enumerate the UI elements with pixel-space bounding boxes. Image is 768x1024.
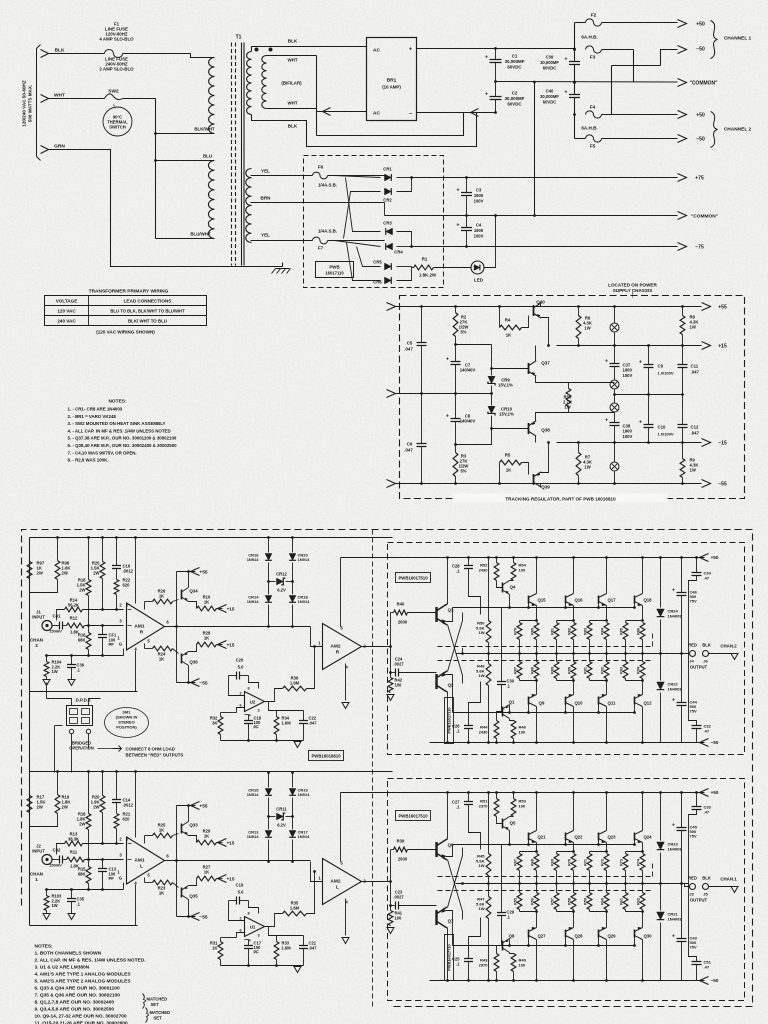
svg-text:+: + xyxy=(565,90,568,96)
svg-text:1N914: 1N914 xyxy=(247,834,260,839)
svg-text:RED: RED xyxy=(688,643,697,648)
wire R18 top xyxy=(88,538,90,580)
wire R10 top xyxy=(568,383,570,389)
wire SM1 left down xyxy=(54,726,56,773)
svg-text:R74: R74 xyxy=(637,858,641,866)
transistor Q35 xyxy=(182,886,189,900)
diode CR21 xyxy=(657,912,665,920)
svg-text:Q10: Q10 xyxy=(574,701,583,706)
svg-text:1N4003: 1N4003 xyxy=(668,613,683,618)
resistor R83 xyxy=(587,623,592,640)
svg-text:6: 6 xyxy=(239,929,241,933)
resistor R25 xyxy=(153,833,173,838)
thermal switch callout circle xyxy=(103,107,132,136)
wire R46 bottom xyxy=(513,972,515,981)
resistor R104 xyxy=(44,662,49,677)
transistor Q27 xyxy=(528,930,530,938)
svg-text:.047: .047 xyxy=(691,431,700,436)
capacitor C44 xyxy=(677,703,687,706)
svg-text:100: 100 xyxy=(519,729,526,734)
wire Q23 base xyxy=(598,841,600,845)
wire SW2 to tap xyxy=(155,99,157,134)
capacitor C36 xyxy=(67,665,76,668)
svg-text:15V,1%: 15V,1% xyxy=(498,383,513,388)
capacitor C25 xyxy=(464,959,473,962)
wire C24 to driver2 base xyxy=(399,672,437,674)
lamp DS4 xyxy=(610,462,619,471)
wire R36 to AM2 node xyxy=(307,647,315,689)
svg-text:+: + xyxy=(457,223,460,229)
ground arrow AM2 xyxy=(342,703,349,709)
fuse F6 xyxy=(313,172,328,179)
svg-text:+: + xyxy=(565,57,568,63)
wire Q39 collector xyxy=(541,443,549,473)
svg-text:Q4: Q4 xyxy=(510,585,516,590)
terminal -75 xyxy=(678,243,687,251)
svg-text:+50: +50 xyxy=(696,22,705,28)
wire Q38 base row xyxy=(492,428,529,430)
wire to pin 2 xyxy=(83,843,124,845)
wire Q40 emitter to Q37 xyxy=(541,318,549,346)
wire R54 top xyxy=(513,793,515,799)
diode CR24 xyxy=(657,609,665,617)
svg-text:CR2: CR2 xyxy=(383,198,392,203)
svg-text:+: + xyxy=(672,823,675,829)
svg-text:R90: R90 xyxy=(568,667,572,674)
svg-text:BLU/WHT: BLU/WHT xyxy=(190,232,211,237)
capacitor C21 xyxy=(303,936,305,946)
svg-text:R81: R81 xyxy=(551,628,555,635)
svg-text:2W: 2W xyxy=(79,822,85,827)
svg-text:+75: +75 xyxy=(695,176,704,182)
wire bias top xyxy=(497,581,503,588)
svg-text:15V,1%: 15V,1% xyxy=(499,412,514,417)
svg-text:1.6M: 1.6M xyxy=(290,681,300,686)
svg-text:620: 620 xyxy=(123,583,131,588)
svg-text:6: 6 xyxy=(239,704,241,708)
svg-text:C11: C11 xyxy=(691,364,699,369)
transistor Q4 xyxy=(503,581,510,595)
svg-text:R4: R4 xyxy=(505,318,511,323)
svg-text:BLK: BLK xyxy=(55,48,65,54)
wire CR6 out xyxy=(397,267,412,281)
wire to F5 xyxy=(575,138,586,140)
wire -50 rail xyxy=(430,980,705,982)
input jack J2 xyxy=(42,855,52,865)
resistor R10 xyxy=(566,389,571,407)
svg-text:Q30: Q30 xyxy=(643,934,652,939)
transistor Q21 xyxy=(528,833,530,841)
lamp DS3 xyxy=(610,403,619,412)
transistor Q10 xyxy=(565,697,567,705)
wire F1 to T1 xyxy=(123,53,191,55)
svg-text:+50: +50 xyxy=(696,113,705,119)
svg-text:BRN: BRN xyxy=(261,196,272,201)
svg-text:1900: 1900 xyxy=(474,193,484,198)
capacitor C11 xyxy=(678,365,688,368)
svg-text:NOTES:: NOTES: xyxy=(108,399,127,405)
wire input column xyxy=(390,850,392,906)
resistor R94 xyxy=(640,662,645,679)
label tracking regulator xyxy=(453,494,668,503)
svg-text:1W: 1W xyxy=(479,906,485,911)
resistor R50 xyxy=(486,621,491,643)
svg-text:38.3K: 38.3K xyxy=(68,837,79,842)
wire bottom frame xyxy=(30,691,138,693)
svg-text:(120 VAC WIRING SHOWN): (120 VAC WIRING SHOWN) xyxy=(96,330,155,335)
wire driver collector up xyxy=(447,793,449,840)
svg-text:1.0/100V: 1.0/100V xyxy=(658,371,674,376)
capacitor C1 xyxy=(495,49,497,60)
capacitor C34 xyxy=(692,573,702,576)
svg-text:.0027: .0027 xyxy=(393,662,404,667)
dashed frame channel1 output module xyxy=(388,779,745,1001)
wire R14 left xyxy=(57,610,65,621)
wire Q38 collector to -15 xyxy=(535,436,537,443)
wire diode col right top xyxy=(292,773,294,788)
svg-text:+: + xyxy=(672,698,675,704)
wire BR1- rail xyxy=(417,112,496,114)
wire SM1 top A xyxy=(47,699,72,706)
wire R98 top xyxy=(57,538,59,561)
svg-text:100: 100 xyxy=(519,567,526,572)
svg-text:SET: SET xyxy=(151,1002,160,1007)
svg-text:CR5: CR5 xyxy=(373,260,382,265)
wire crossover 2 xyxy=(661,50,678,66)
wire Q17 base xyxy=(598,604,600,608)
svg-text:4. AM1'S ARE TYPE 1 ANALOG MOD: 4. AM1'S ARE TYPE 1 ANALOG MODULES xyxy=(35,972,132,978)
svg-text:Q15: Q15 xyxy=(537,598,546,603)
wire R22 bottom xyxy=(116,829,118,844)
svg-text:−55: −55 xyxy=(199,915,207,921)
resistor R42 xyxy=(388,678,393,693)
resistor R13 xyxy=(65,841,83,846)
wire AM2 output right xyxy=(361,881,385,883)
svg-text:+: + xyxy=(605,359,608,365)
resistor R88 xyxy=(534,662,539,679)
dashed frame channel2 output module xyxy=(388,543,745,755)
svg-text:120/240 VAC 50-60HZ: 120/240 VAC 50-60HZ xyxy=(22,80,27,127)
wire -50 rail xyxy=(430,742,705,744)
terminal +50 ch2 xyxy=(678,111,687,119)
resistor R82 xyxy=(571,623,576,640)
capacitor CF1 xyxy=(98,635,107,638)
wire base bus bottom xyxy=(453,712,635,714)
wire C16 top xyxy=(116,772,118,800)
svg-text:1.6M: 1.6M xyxy=(290,906,300,911)
svg-text:Q37: Q37 xyxy=(541,361,550,366)
svg-text:SWITCH: SWITCH xyxy=(109,125,126,130)
ground arrow c36 xyxy=(68,680,75,686)
diode CR17 xyxy=(289,831,296,838)
svg-text:2970: 2970 xyxy=(479,962,489,967)
wire Q24 emitter xyxy=(642,843,644,852)
terminal -55 xyxy=(702,480,711,488)
svg-text:30,000MF: 30,000MF xyxy=(505,96,525,101)
svg-text:C41: C41 xyxy=(53,614,61,619)
label box PWB16017510 xyxy=(396,573,431,583)
svg-text:R1: R1 xyxy=(422,257,428,262)
svg-text:R: R xyxy=(140,630,144,636)
svg-text:+50: +50 xyxy=(711,790,719,795)
resistor R91 xyxy=(587,662,592,679)
svg-text:R91: R91 xyxy=(584,667,588,674)
resistor R48 xyxy=(486,664,491,686)
svg-text:+15: +15 xyxy=(227,841,235,846)
wire +55 stub xyxy=(177,571,196,573)
wire U2 pin6 down xyxy=(237,708,245,713)
svg-text:30,000MF: 30,000MF xyxy=(540,94,559,99)
transistor Q11 xyxy=(598,697,600,705)
svg-text:(BIFILAR): (BIFILAR) xyxy=(281,81,302,86)
terminal +50 out xyxy=(700,554,709,562)
svg-text:T1: T1 xyxy=(236,35,242,41)
svg-text:−: − xyxy=(409,112,412,118)
wire top rail xyxy=(30,537,393,539)
wire Q22 base xyxy=(565,841,567,845)
resistor R61 xyxy=(623,893,628,910)
svg-text:F6: F6 xyxy=(318,165,324,170)
svg-text:−50: −50 xyxy=(696,47,705,53)
wire center tap to common xyxy=(384,203,386,216)
wire row Q38 emitter bus xyxy=(536,412,615,414)
terminal +75 xyxy=(678,174,687,182)
wire to BLU tap xyxy=(156,160,215,162)
capacitor C16 xyxy=(112,566,121,569)
resistor R11 xyxy=(67,857,85,862)
svg-text:120 VAC: 120 VAC xyxy=(57,309,76,314)
input terminal bracket xyxy=(37,45,41,161)
resistor R3 xyxy=(453,453,458,477)
wire crossover 3 xyxy=(611,66,613,115)
svg-text:−75: −75 xyxy=(695,245,704,251)
svg-text:1K: 1K xyxy=(204,636,209,641)
svg-text:2: 2 xyxy=(239,692,241,696)
transistor Q1 xyxy=(503,705,510,719)
wire drivers cross coupling xyxy=(448,625,463,684)
wire secondary BLK top to BR1 xyxy=(252,47,367,52)
resistor R84 xyxy=(604,623,609,640)
svg-text:F4: F4 xyxy=(590,105,596,111)
resistor R79 xyxy=(517,623,522,640)
wire GRN to chassis ground xyxy=(49,150,283,267)
svg-text:OPERATION: OPERATION xyxy=(69,746,94,751)
wire Q24 base xyxy=(634,841,636,845)
wire AM1 output xyxy=(165,626,311,628)
svg-text:F7: F7 xyxy=(318,246,324,251)
wire R14 left xyxy=(57,844,65,855)
svg-text:Q18: Q18 xyxy=(643,598,652,603)
zener CR11 xyxy=(277,813,286,820)
fuse F3 xyxy=(586,46,602,53)
resistor R4 xyxy=(499,307,501,323)
svg-text:Q11: Q11 xyxy=(608,701,616,706)
svg-text:G: G xyxy=(119,642,122,647)
svg-text:R82: R82 xyxy=(568,628,572,635)
wire C46 top xyxy=(681,793,683,828)
svg-text:R93: R93 xyxy=(620,667,624,674)
wire bifilar to BR1 AC xyxy=(317,111,367,113)
resistor R6 xyxy=(576,316,581,339)
polarity dot A xyxy=(255,48,259,52)
wire lamp column top xyxy=(614,307,616,323)
transistor Q37 xyxy=(529,361,537,376)
svg-text:BLK: BLK xyxy=(288,124,298,129)
wire input column xyxy=(390,613,392,673)
capacitor C13 xyxy=(98,869,107,872)
resistor R32 xyxy=(218,717,223,735)
capacitor C38 xyxy=(610,423,620,426)
svg-text:R71: R71 xyxy=(584,859,588,866)
resistor R5 xyxy=(499,468,501,484)
svg-text:Q35: Q35 xyxy=(189,894,198,899)
svg-text:6A.H.B.: 6A.H.B. xyxy=(581,126,597,131)
svg-text:L: L xyxy=(140,864,143,870)
svg-text:CHAN.1: CHAN.1 xyxy=(720,877,737,882)
wire AM1 output xyxy=(165,860,311,862)
wire C13 top xyxy=(102,860,104,869)
wire driver2 emitter to bus xyxy=(446,675,453,713)
wire bottom frame xyxy=(30,925,138,927)
op-amp AM1 L xyxy=(127,837,165,884)
resistor R55 xyxy=(517,893,522,910)
svg-text:C20: C20 xyxy=(236,658,244,663)
svg-text:R39: R39 xyxy=(397,839,405,844)
resistor R18 xyxy=(86,580,91,596)
svg-text:MATCHED: MATCHED xyxy=(150,1010,171,1015)
wire Q17 emitter xyxy=(606,606,608,621)
resistor R98 xyxy=(55,561,60,580)
resistor R21 xyxy=(114,814,119,829)
svg-text:BLK/ WHT TO BLU: BLK/ WHT TO BLU xyxy=(128,319,167,324)
wire Q34 emitter xyxy=(189,836,197,843)
diode CR6 xyxy=(385,277,392,284)
svg-text:3. U1 & U2 ARE LM380N: 3. U1 & U2 ARE LM380N xyxy=(35,965,90,971)
wire F7 to CR4 xyxy=(335,241,381,247)
diode CR1 xyxy=(385,174,392,181)
svg-text:VOLTAGE: VOLTAGE xyxy=(56,299,78,304)
wire Q36 collector to -55 xyxy=(188,900,190,917)
svg-text:68K: 68K xyxy=(78,872,86,877)
terminal -50 ch2 xyxy=(678,135,687,143)
terminal +75 in xyxy=(387,303,396,311)
wire CR3 cross xyxy=(346,178,381,232)
capacitor C3 xyxy=(466,178,468,193)
svg-text:+: + xyxy=(672,934,675,940)
resistor R35 xyxy=(283,911,307,916)
wire Q9 collector xyxy=(536,707,538,743)
svg-text:5.0: 5.0 xyxy=(238,665,244,670)
svg-text:1K: 1K xyxy=(212,946,217,951)
wire Q15 emitter xyxy=(536,606,538,621)
wire red jack to bus xyxy=(685,884,690,887)
wire diode col right top xyxy=(292,538,294,553)
wire from AM2 xyxy=(385,881,391,883)
ic U2 xyxy=(245,692,265,712)
svg-text:2: 2 xyxy=(35,643,38,648)
resistor R53 xyxy=(511,799,516,817)
capacitor C5 xyxy=(421,307,423,343)
resistor R81 xyxy=(554,623,559,640)
lamp DS1 xyxy=(610,323,619,332)
wire Q34 emitter xyxy=(189,602,197,609)
svg-text:30,000MF: 30,000MF xyxy=(505,59,525,64)
resistor R47 xyxy=(486,897,491,919)
svg-text:BLK: BLK xyxy=(288,39,298,44)
svg-text:Q2: Q2 xyxy=(448,683,454,688)
wire C20 to U2 pin2 xyxy=(229,676,245,696)
capacitor C7 xyxy=(451,362,461,365)
svg-text:R79: R79 xyxy=(514,628,518,635)
wire diode col left top xyxy=(268,538,270,553)
junction BLU xyxy=(154,159,157,162)
wire ground row xyxy=(47,655,124,657)
svg-text:75V: 75V xyxy=(690,834,697,839)
wire Q15 collector xyxy=(536,558,538,594)
wire ground stub xyxy=(282,263,284,267)
svg-text:F2: F2 xyxy=(591,13,597,19)
wire Q34 collector to +55 xyxy=(188,572,190,588)
svg-text:R85: R85 xyxy=(620,628,624,635)
capacitor C4 xyxy=(466,216,468,228)
wire Q36 emitter xyxy=(189,645,197,652)
diode CR14 xyxy=(265,596,272,603)
wire bifilar right edge xyxy=(316,56,318,136)
wire AM2 pin4 down xyxy=(345,664,347,701)
capacitor C41 xyxy=(60,622,63,630)
wire common rail mid xyxy=(496,81,678,84)
svg-text:8: 8 xyxy=(247,912,249,916)
ground chassis xyxy=(272,269,291,274)
svg-text:8. Q1,2,7,8 ARE OUR NO. 30002: 8. Q1,2,7,8 ARE OUR NO. 30002400 xyxy=(35,1000,115,1006)
svg-text:R84: R84 xyxy=(601,627,605,635)
wire left frame vertical xyxy=(29,538,31,692)
ic U1 xyxy=(245,917,265,937)
svg-text:Q33: Q33 xyxy=(189,823,198,828)
svg-text:PF: PF xyxy=(109,642,115,647)
svg-text:C12: C12 xyxy=(691,425,699,430)
svg-text:Q6: Q6 xyxy=(448,843,454,848)
resistor R87 xyxy=(517,662,522,679)
svg-text:1: 1 xyxy=(35,877,38,882)
svg-text:J5: J5 xyxy=(703,892,708,897)
resistor R40 xyxy=(394,610,408,615)
svg-text:1N914: 1N914 xyxy=(247,792,260,797)
svg-text:2W: 2W xyxy=(37,805,43,810)
svg-text:5. - Q37,38 ARE M.P., OUR NO.: 5. - Q37,38 ARE M.P., OUR NO. 30001100 &… xyxy=(68,436,177,441)
svg-text:1K: 1K xyxy=(159,657,164,662)
svg-text:WHT: WHT xyxy=(54,93,65,99)
label connect 8 ohm load xyxy=(113,746,122,752)
capacitor C26 xyxy=(464,726,473,729)
svg-text:3. - SW2 MOUNTED ON HEAT SINK: 3. - SW2 MOUNTED ON HEAT SINK ASSEMBLY xyxy=(68,421,166,426)
wire F2 to +50 xyxy=(602,22,678,24)
terminal -50 out xyxy=(700,977,709,985)
svg-text:Q1: Q1 xyxy=(509,700,515,705)
resistor R58 xyxy=(571,893,576,910)
wire Q29 collector xyxy=(606,940,608,981)
svg-text:SET: SET xyxy=(154,1016,163,1021)
wire AM2 pin5 up xyxy=(340,793,342,862)
svg-text:LOCATED ON POWER: LOCATED ON POWER xyxy=(608,283,657,288)
arrow chan 1 xyxy=(731,887,738,893)
svg-text:500 WATTS MAX.: 500 WATTS MAX. xyxy=(28,85,33,122)
wire Q30 base xyxy=(634,938,636,946)
arrow chan 2 xyxy=(731,654,738,660)
terminal -50 ch1 xyxy=(678,46,687,54)
svg-text:R58: R58 xyxy=(568,898,572,905)
svg-text:5%: 5% xyxy=(460,469,466,474)
